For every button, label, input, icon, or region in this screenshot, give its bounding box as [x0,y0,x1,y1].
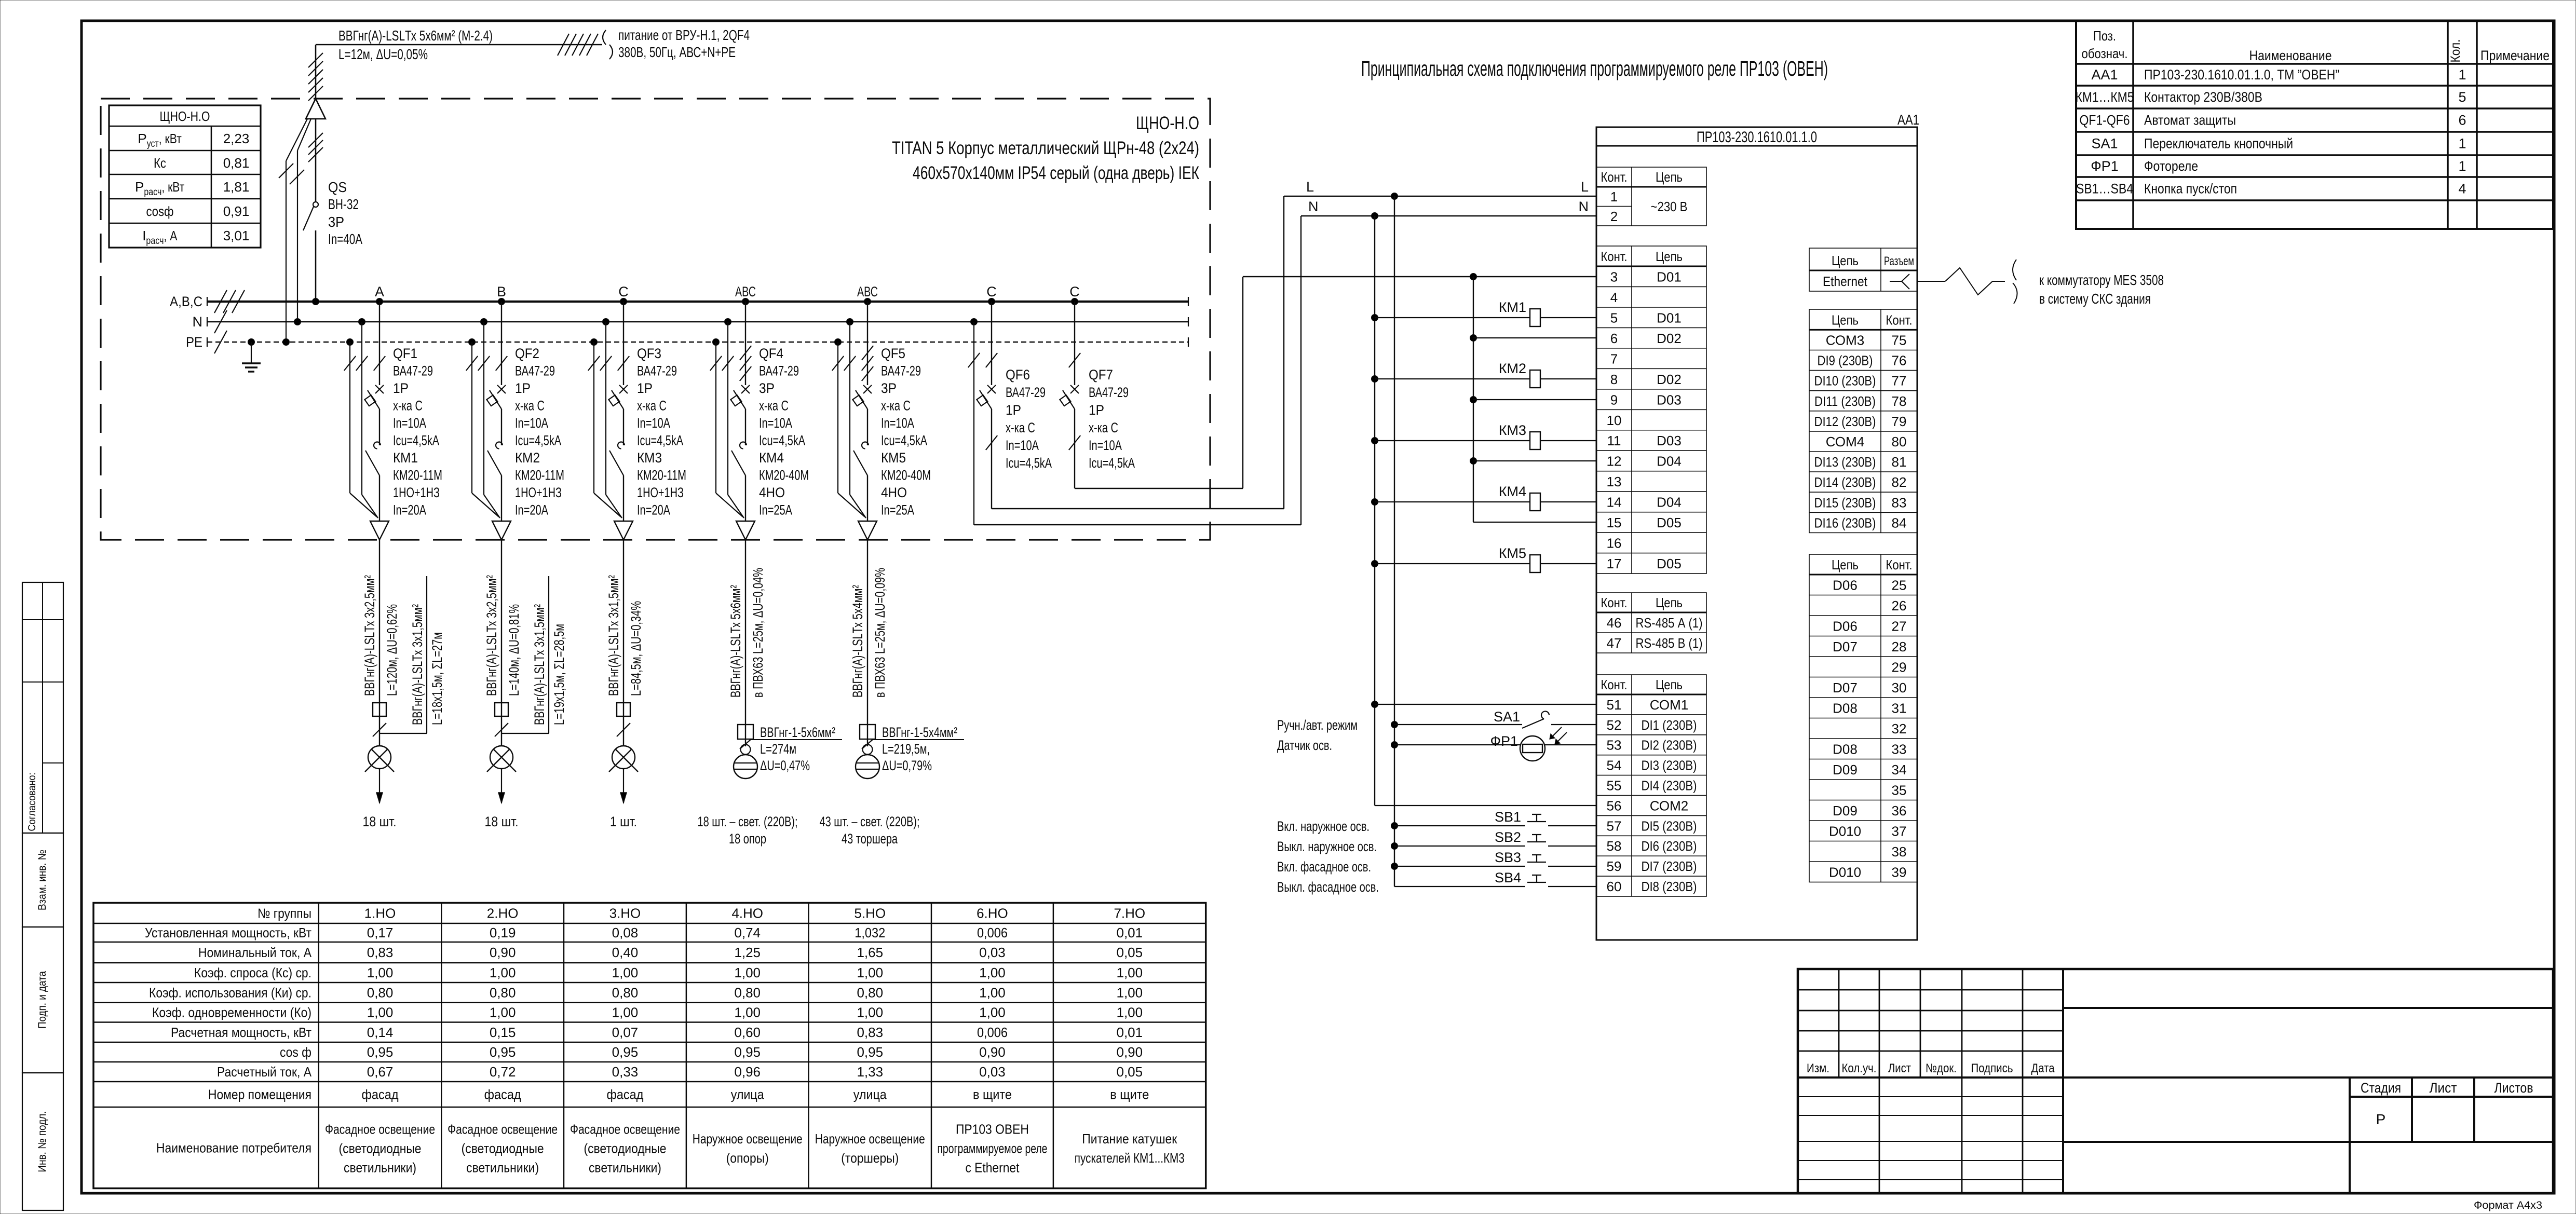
svg-text:Цепь: Цепь [1656,677,1683,692]
svg-text:Конт.: Конт. [1601,677,1628,692]
svg-text:D03: D03 [1657,392,1682,407]
svg-text:36: 36 [1892,803,1907,819]
svg-text:0,60: 0,60 [734,1025,761,1040]
svg-text:1: 1 [1610,189,1618,204]
svg-text:0,006: 0,006 [977,1025,1008,1040]
svg-text:D02: D02 [1657,331,1682,346]
svg-text:4НО: 4НО [759,485,785,500]
svg-text:светильники): светильники) [344,1160,416,1175]
svg-text:D08: D08 [1833,742,1858,757]
svg-text:ΔU=0,79%: ΔU=0,79% [882,758,932,773]
svg-text:D08: D08 [1833,701,1858,716]
svg-text:питание от ВРУ-Н.1, 2QF4: питание от ВРУ-Н.1, 2QF4 [618,27,750,43]
svg-text:в ПВХ63 L=25м, ΔU=0,04%: в ПВХ63 L=25м, ΔU=0,04% [750,568,766,698]
svg-text:Конт.: Конт. [1886,312,1913,328]
svg-text:Инв. № подл.: Инв. № подл. [36,1111,48,1172]
svg-text:8: 8 [1610,372,1618,387]
svg-text:Наименование потребителя: Наименование потребителя [156,1140,311,1155]
svg-text:0,19: 0,19 [490,925,516,940]
svg-text:Цепь: Цепь [1832,557,1859,572]
svg-text:QF1-QF6: QF1-QF6 [2080,113,2130,128]
svg-text:Iсu=4,5kА: Iсu=4,5kА [1006,455,1052,471]
svg-text:ВА47-29: ВА47-29 [515,363,555,379]
svg-text:In=10А: In=10А [637,415,670,431]
svg-text:7.НО: 7.НО [1114,905,1145,921]
svg-text:Дата: Дата [2031,1061,2055,1075]
svg-text:КМ1: КМ1 [1499,299,1526,315]
svg-text:15: 15 [1607,515,1622,530]
svg-text:Кнопка пуск/стоп: Кнопка пуск/стоп [2144,181,2237,197]
svg-text:1,00: 1,00 [612,1005,639,1020]
svg-text:улица: улица [731,1087,764,1102]
svg-text:1НО+1НЗ: 1НО+1НЗ [515,485,562,500]
svg-text:Фасадное освещение: Фасадное освещение [570,1121,680,1137]
svg-text:5.НО: 5.НО [854,905,886,921]
svg-text:35: 35 [1892,783,1907,798]
svg-text:DI1 (230В): DI1 (230В) [1642,717,1697,733]
svg-text:Фотореле: Фотореле [2144,158,2198,174]
svg-text:Iсu=4,5kА: Iсu=4,5kА [393,433,439,448]
svg-text:1,00: 1,00 [367,965,394,980]
svg-text:Расчетный ток, А: Расчетный ток, А [217,1064,312,1080]
svg-text:0,40: 0,40 [612,945,639,960]
svg-text:ВА47-29: ВА47-29 [1006,385,1046,400]
svg-text:TITAN 5 Корпус металлический Щ: TITAN 5 Корпус металлический ЩРн-48 (2х2… [892,138,1199,158]
svg-text:СОМ4: СОМ4 [1826,434,1865,449]
svg-text:С: С [1069,284,1080,299]
svg-text:D07: D07 [1833,680,1858,695]
svg-text:33: 33 [1892,742,1907,757]
svg-text:4: 4 [1610,290,1618,305]
svg-text:DI10 (230В): DI10 (230В) [1814,373,1876,389]
svg-text:КМ2: КМ2 [1499,361,1526,376]
svg-text:ВА47-29: ВА47-29 [393,363,433,379]
svg-text:cosф: cosф [146,203,174,219]
svg-text:SB2: SB2 [1495,829,1521,845]
svg-text:L=140м, ΔU=0,81%: L=140м, ΔU=0,81% [506,604,522,696]
svg-text:2,23: 2,23 [223,131,250,146]
svg-text:D09: D09 [1833,803,1858,819]
svg-text:Iсu=4,5kА: Iсu=4,5kА [759,433,805,448]
svg-text:0,03: 0,03 [979,945,1006,960]
svg-text:Вкл. фасадное осв.: Вкл. фасадное осв. [1277,859,1371,875]
svg-text:SB1: SB1 [1495,809,1521,825]
svg-text:DI16 (230В): DI16 (230В) [1814,515,1876,530]
svg-text:54: 54 [1607,758,1622,773]
svg-text:Датчик осв.: Датчик осв. [1277,738,1332,753]
svg-text:светильники): светильники) [589,1160,661,1175]
svg-text:Вкл. наружное осв.: Вкл. наружное осв. [1277,819,1370,834]
svg-text:28: 28 [1892,639,1907,654]
svg-text:С: С [618,284,629,299]
svg-text:SВ1…SВ4: SВ1…SВ4 [2076,181,2133,197]
svg-text:DI14 (230В): DI14 (230В) [1814,474,1876,490]
svg-text:D05: D05 [1657,556,1682,571]
svg-text:1.НО: 1.НО [364,905,396,921]
svg-text:А,В,С: А,В,С [170,294,202,309]
svg-text:АА1: АА1 [2091,67,2118,83]
svg-text:D03: D03 [1657,433,1682,448]
svg-text:Конт.: Конт. [1601,595,1628,610]
svg-text:N: N [193,314,203,330]
svg-text:56: 56 [1607,798,1622,813]
svg-text:60: 60 [1607,879,1622,894]
svg-text:Конт.: Конт. [1886,557,1913,572]
svg-text:х-ка С: х-ка С [515,398,545,414]
svg-text:1,00: 1,00 [857,965,883,980]
svg-text:ΔU=0,47%: ΔU=0,47% [760,758,810,773]
svg-text:улица: улица [853,1087,887,1102]
svg-text:QF3: QF3 [637,346,661,361]
svg-text:0,15: 0,15 [490,1025,516,1040]
svg-text:ФР1: ФР1 [2091,158,2119,174]
svg-text:In=20А: In=20А [637,502,670,518]
svg-text:6: 6 [2458,113,2466,128]
svg-text:Расчетная мощность, кВт: Расчетная мощность, кВт [171,1025,311,1040]
svg-text:0,95: 0,95 [490,1044,516,1060]
svg-text:Контактор 230В/380В: Контактор 230В/380В [2144,89,2262,105]
svg-text:DI7 (230В): DI7 (230В) [1642,858,1697,874]
svg-text:QF4: QF4 [759,346,783,361]
svg-text:КМ1…КМ5: КМ1…КМ5 [2076,89,2134,105]
svg-text:~230 В: ~230 В [1651,199,1688,214]
svg-text:КМ2: КМ2 [515,450,540,466]
svg-text:ПР103-230.1610.01.1.0: ПР103-230.1610.01.1.0 [1697,129,1817,146]
svg-text:0,03: 0,03 [979,1064,1006,1080]
svg-text:0,80: 0,80 [367,985,394,1000]
svg-text:Принципиальная схема подключен: Принципиальная схема подключения програм… [1361,57,1828,80]
svg-text:1: 1 [2458,158,2466,174]
svg-text:D06: D06 [1833,619,1858,634]
svg-text:9: 9 [1610,392,1618,407]
svg-text:ВВГнг-1-5х4мм²: ВВГнг-1-5х4мм² [882,725,957,740]
svg-text:1,032: 1,032 [855,925,885,940]
svg-text:47: 47 [1607,635,1622,651]
svg-text:L=18х1,5м, ΣL=27м: L=18х1,5м, ΣL=27м [429,632,445,725]
svg-text:0,96: 0,96 [734,1064,761,1080]
svg-text:76: 76 [1892,353,1907,369]
svg-text:30: 30 [1892,680,1907,695]
svg-text:ВВГнг(А)-LSLТх 3х1,5мм²: ВВГнг(А)-LSLТх 3х1,5мм² [606,575,621,696]
svg-text:0,08: 0,08 [612,925,639,940]
svg-text:1,00: 1,00 [612,965,639,980]
svg-text:6.НО: 6.НО [977,905,1008,921]
svg-text:к коммутатору MES 3508: к коммутатору MES 3508 [2039,272,2164,288]
svg-text:DI11 (230В): DI11 (230В) [1814,393,1876,409]
svg-text:In=25А: In=25А [759,502,792,518]
svg-text:0,90: 0,90 [490,945,516,960]
svg-text:КМ20-11М: КМ20-11М [637,468,686,483]
svg-text:0,95: 0,95 [734,1044,761,1060]
svg-text:1,25: 1,25 [734,945,761,960]
svg-text:КМ4: КМ4 [759,450,784,466]
svg-text:ВА47-29: ВА47-29 [881,363,921,379]
svg-text:х-ка С: х-ка С [637,398,667,414]
svg-text:0,90: 0,90 [1116,1044,1143,1060]
svg-text:18 шт.: 18 шт. [363,814,397,829]
svg-text:SB4: SB4 [1495,870,1521,885]
svg-text:39: 39 [1892,865,1907,880]
svg-text:х-ка С: х-ка С [1006,420,1035,435]
svg-text:ВВГнг(А)-LSLТх 3х1,5мм²: ВВГнг(А)-LSLТх 3х1,5мм² [532,604,547,725]
svg-text:Ethernet: Ethernet [1823,274,1868,289]
svg-text:In=10А: In=10А [1006,438,1039,453]
svg-text:КМ5: КМ5 [881,450,906,466]
svg-text:82: 82 [1892,474,1907,490]
svg-text:в систему СКС здания: в систему СКС здания [2039,291,2151,307]
svg-text:в щите: в щите [973,1087,1012,1102]
svg-text:1,00: 1,00 [490,1005,516,1020]
svg-text:ЩНО-Н.О: ЩНО-Н.О [160,108,210,124]
svg-text:1Р: 1Р [637,380,653,396]
svg-text:Наименование: Наименование [2249,48,2332,63]
svg-text:КМ20-11М: КМ20-11М [515,468,564,483]
svg-text:пускателей КМ1...КМ3: пускателей КМ1...КМ3 [1075,1150,1185,1166]
svg-text:43 торшера: 43 торшера [842,831,898,847]
svg-text:АВС: АВС [735,284,756,299]
svg-text:QF1: QF1 [393,346,417,361]
svg-text:1Р: 1Р [393,380,409,396]
svg-text:Подп. и дата: Подп. и дата [36,971,48,1029]
svg-text:1Р: 1Р [515,380,531,396]
svg-text:1,00: 1,00 [979,1005,1006,1020]
svg-text:Кол.: Кол. [2448,39,2463,63]
svg-text:D05: D05 [1657,515,1682,530]
svg-text:DI13 (230В): DI13 (230В) [1814,454,1876,470]
svg-text:КМ3: КМ3 [637,450,662,466]
svg-text:N: N [1308,199,1319,214]
svg-text:Лист: Лист [1888,1061,1911,1075]
svg-text:0,80: 0,80 [857,985,883,1000]
svg-text:460х570х140мм IР54 серый (одна: 460х570х140мм IР54 серый (одна дверь) IЕ… [913,163,1199,183]
svg-text:1: 1 [2458,136,2466,152]
svg-text:N: N [1579,199,1589,214]
svg-text:Коэф. одновременности (Ко): Коэф. одновременности (Ко) [152,1005,311,1020]
svg-text:43 шт. – свет. (220В);: 43 шт. – свет. (220В); [820,814,920,829]
svg-text:In=25А: In=25А [881,502,914,518]
svg-text:Номинальный ток, А: Номинальный ток, А [198,945,312,960]
svg-text:1Р: 1Р [1089,402,1104,418]
svg-text:СОМ2: СОМ2 [1650,798,1689,813]
svg-text:Автомат защиты: Автомат защиты [2144,113,2236,128]
svg-text:78: 78 [1892,393,1907,409]
svg-text:380В, 50Гц, АВС+N+РЕ: 380В, 50Гц, АВС+N+РЕ [618,44,736,60]
svg-text:КМ3: КМ3 [1499,422,1526,438]
svg-text:Кол.уч.: Кол.уч. [1842,1061,1877,1075]
svg-text:Подпись: Подпись [1971,1061,2013,1075]
svg-text:1,33: 1,33 [857,1064,883,1080]
svg-text:0,05: 0,05 [1116,1064,1143,1080]
svg-text:1,00: 1,00 [857,1005,883,1020]
svg-text:1Р: 1Р [1006,402,1021,418]
svg-text:In=10А: In=10А [393,415,426,431]
svg-text:2: 2 [1610,209,1618,224]
svg-text:х-ка С: х-ка С [759,398,789,414]
svg-text:Формат А4х3: Формат А4х3 [2474,1199,2542,1211]
svg-text:0,91: 0,91 [223,203,250,219]
svg-text:Iсu=4,5kА: Iсu=4,5kА [515,433,561,448]
svg-text:Цепь: Цепь [1832,312,1859,328]
svg-text:84: 84 [1892,515,1907,530]
svg-text:ВВГнг(А)-LSLТх 3х2,5мм²: ВВГнг(А)-LSLТх 3х2,5мм² [484,575,499,696]
svg-text:0,74: 0,74 [734,925,761,940]
svg-text:6: 6 [1610,331,1618,346]
svg-text:DI5 (230В): DI5 (230В) [1642,818,1697,834]
svg-text:Номер помещения: Номер помещения [208,1087,311,1102]
svg-text:31: 31 [1892,701,1907,716]
svg-text:QF2: QF2 [515,346,539,361]
svg-text:11: 11 [1607,433,1621,448]
svg-text:3Р: 3Р [881,380,897,396]
svg-text:DI6 (230В): DI6 (230В) [1642,838,1697,854]
svg-text:57: 57 [1607,818,1622,834]
svg-text:ПР103 ОВЕН: ПР103 ОВЕН [956,1121,1029,1137]
svg-text:17: 17 [1607,556,1622,571]
svg-text:ФР1: ФР1 [1490,733,1518,749]
svg-text:ВВГнг(А)-LSLТх 3х2,5мм²: ВВГнг(А)-LSLТх 3х2,5мм² [362,575,377,696]
svg-text:29: 29 [1892,660,1907,675]
svg-text:27: 27 [1892,619,1907,634]
svg-text:D02: D02 [1657,372,1682,387]
svg-text:DI3 (230В): DI3 (230В) [1642,758,1697,773]
svg-text:Цепь: Цепь [1656,249,1683,264]
svg-text:0,95: 0,95 [367,1044,394,1060]
svg-text:ПР103-230.1610.01.1.0, ТМ ”ОВЕ: ПР103-230.1610.01.1.0, ТМ ”ОВЕН” [2144,67,2339,83]
svg-text:25: 25 [1892,578,1907,593]
svg-text:DI2 (230В): DI2 (230В) [1642,738,1697,753]
svg-text:QS: QS [328,179,347,195]
svg-text:5: 5 [2458,89,2466,105]
svg-text:Выкл. фасадное осв.: Выкл. фасадное осв. [1277,879,1379,895]
svg-text:L=120м, ΔU=0,62%: L=120м, ΔU=0,62% [384,604,400,696]
svg-text:DI8 (230В): DI8 (230В) [1642,879,1697,894]
svg-text:Iсu=4,5kА: Iсu=4,5kА [881,433,927,448]
svg-text:Наружное освещение: Наружное освещение [815,1131,925,1147]
svg-text:3.НО: 3.НО [609,905,641,921]
svg-text:RS-485 В (1): RS-485 В (1) [1636,635,1703,651]
svg-text:14: 14 [1607,495,1622,510]
svg-text:SA1: SA1 [1494,709,1520,725]
svg-text:КМ5: КМ5 [1499,545,1526,561]
svg-text:ВВГнг(А)-LSLТх 5х6мм² (М-2.4): ВВГнг(А)-LSLТх 5х6мм² (М-2.4) [338,28,493,44]
svg-text:1,65: 1,65 [857,945,883,960]
svg-text:фасад: фасад [362,1087,399,1102]
svg-text:18 шт. – свет. (220В);: 18 шт. – свет. (220В); [698,814,798,829]
svg-text:КМ20-40М: КМ20-40М [759,468,809,483]
svg-text:ВВГнг-1-5х6мм²: ВВГнг-1-5х6мм² [760,725,835,740]
svg-text:0,33: 0,33 [612,1064,639,1080]
svg-text:КМ20-40М: КМ20-40М [881,468,931,483]
svg-text:In=20А: In=20А [393,502,426,518]
svg-text:Выкл. наружное осв.: Выкл. наружное осв. [1277,839,1377,854]
svg-text:46: 46 [1607,615,1622,631]
svg-text:81: 81 [1892,454,1907,470]
svg-text:0,67: 0,67 [367,1064,394,1080]
svg-text:1,00: 1,00 [490,965,516,980]
svg-text:ВВГнг(А)-LSLТх 3х1,5мм²: ВВГнг(А)-LSLТх 3х1,5мм² [410,604,425,725]
svg-text:D01: D01 [1657,269,1682,284]
svg-text:1НО+1НЗ: 1НО+1НЗ [637,485,684,500]
svg-text:0,07: 0,07 [612,1025,639,1040]
svg-text:53: 53 [1607,738,1622,753]
svg-text:ВВГнг(А)-LSLТх 5х4мм²: ВВГнг(А)-LSLТх 5х4мм² [850,585,865,698]
svg-text:1,00: 1,00 [367,1005,394,1020]
svg-text:ВН-32: ВН-32 [328,196,359,212]
svg-text:Цепь: Цепь [1832,253,1859,268]
svg-text:0,05: 0,05 [1116,945,1143,960]
svg-text:1: 1 [2458,67,2466,83]
svg-text:фасад: фасад [606,1087,643,1102]
svg-text:0,81: 0,81 [223,155,250,171]
svg-text:х-ка С: х-ка С [881,398,911,414]
svg-text:D04: D04 [1657,495,1682,510]
svg-text:1,00: 1,00 [1116,965,1143,980]
svg-text:АВС: АВС [857,284,878,299]
svg-text:QF7: QF7 [1089,367,1113,383]
svg-text:Переключатель кнопочный: Переключатель кнопочный [2144,136,2293,152]
svg-text:Ручн./авт. режим: Ручн./авт. режим [1277,717,1358,733]
svg-text:Лист: Лист [2430,1080,2457,1096]
svg-text:(светодиодные: (светодиодные [462,1140,544,1156]
svg-text:РЕ: РЕ [186,334,202,350]
svg-text:1НО+1НЗ: 1НО+1НЗ [393,485,440,500]
svg-text:QF5: QF5 [881,346,905,361]
svg-text:3Р: 3Р [759,380,775,396]
svg-text:52: 52 [1607,717,1622,733]
svg-text:ЩНО-Н.О: ЩНО-Н.О [1136,113,1199,133]
svg-text:1,00: 1,00 [734,1005,761,1020]
svg-text:№док.: №док. [1926,1061,1957,1075]
svg-text:0,95: 0,95 [612,1044,639,1060]
svg-text:0,83: 0,83 [857,1025,883,1040]
svg-text:L=12м, ΔU=0,05%: L=12м, ΔU=0,05% [338,46,428,62]
svg-text:Iсu=4,5kА: Iсu=4,5kА [637,433,683,448]
svg-text:Установленная мощность, кВт: Установленная мощность, кВт [145,925,311,940]
svg-text:D04: D04 [1657,454,1682,469]
svg-text:In=10А: In=10А [881,415,914,431]
svg-text:DI9 (230В): DI9 (230В) [1818,353,1873,369]
svg-text:D09: D09 [1833,762,1858,777]
svg-text:Кс: Кс [154,155,166,171]
svg-text:1,81: 1,81 [223,179,250,195]
svg-text:ВА47-29: ВА47-29 [759,363,799,379]
svg-text:Коэф. спроса (Кс) ср.: Коэф. спроса (Кс) ср. [194,965,311,980]
svg-text:1 шт.: 1 шт. [610,814,637,829]
svg-text:Цепь: Цепь [1656,169,1683,185]
svg-text:In=40А: In=40А [328,231,362,247]
svg-text:КМ1: КМ1 [393,450,418,466]
svg-text:59: 59 [1607,858,1622,874]
svg-text:DI15 (230В): DI15 (230В) [1814,495,1876,510]
svg-text:13: 13 [1607,474,1622,489]
svg-text:L: L [1306,179,1314,195]
svg-text:D010: D010 [1829,865,1861,880]
svg-text:в ПВХ63 L=25м, ΔU=0,09%: в ПВХ63 L=25м, ΔU=0,09% [872,568,888,698]
svg-text:1,00: 1,00 [979,965,1006,980]
svg-text:Поз.: Поз. [2093,28,2116,44]
svg-text:ВВГнг(А)-LSLТх 5х6мм²: ВВГнг(А)-LSLТх 5х6мм² [728,585,743,698]
svg-text:83: 83 [1892,495,1907,510]
svg-text:55: 55 [1607,778,1622,794]
svg-text:Питание катушек: Питание катушек [1082,1131,1177,1147]
svg-text:обознач.: обознач. [2082,46,2128,61]
svg-text:7: 7 [1610,351,1618,366]
svg-text:0,17: 0,17 [367,925,394,940]
svg-text:DI12 (230В): DI12 (230В) [1814,414,1876,429]
svg-text:Фасадное освещение: Фасадное освещение [325,1121,435,1137]
svg-text:Листов: Листов [2494,1080,2533,1096]
svg-text:In=10А: In=10А [515,415,548,431]
